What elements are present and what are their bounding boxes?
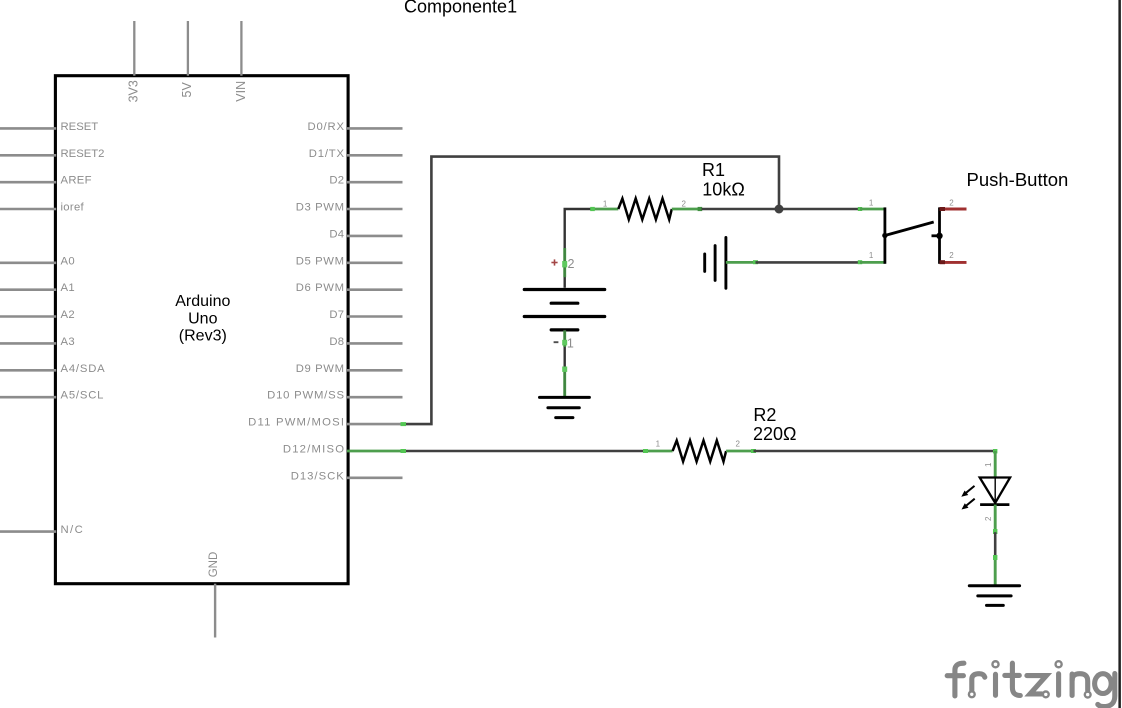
junction node dot xyxy=(775,205,784,214)
svg-text:1: 1 xyxy=(603,199,608,208)
svg-text:1: 1 xyxy=(656,439,661,448)
svg-text:R2: R2 xyxy=(753,405,776,425)
LED D1 light arrow 1 xyxy=(966,486,974,493)
svg-text:N/C: N/C xyxy=(61,524,85,536)
svg-text:A1: A1 xyxy=(61,282,75,294)
pin A5/SCL stub xyxy=(0,396,56,399)
left pin labels xyxy=(61,121,106,536)
push-button S1 contact tick right xyxy=(932,234,940,237)
canvas right edge line xyxy=(1118,0,1121,708)
pin 3V3 top stub xyxy=(133,21,135,76)
svg-text:2: 2 xyxy=(949,198,954,207)
ground GND2 pin lead xyxy=(726,261,756,264)
resistor R1 zigzag xyxy=(618,199,672,220)
push-button S1 contact dot right xyxy=(936,233,942,239)
pin D4 stub xyxy=(347,235,403,238)
svg-text:D13/SCK: D13/SCK xyxy=(291,470,345,482)
push-button S1 pin 2 bottom lead (unconnected, red) xyxy=(940,261,967,264)
svg-text:220Ω: 220Ω xyxy=(753,424,797,444)
svg-text:D0/RX: D0/RX xyxy=(308,121,345,133)
wire battery+ corner to R1 xyxy=(565,209,592,288)
push-button S1 left post xyxy=(884,207,887,263)
ground GND1 symbol xyxy=(540,396,590,399)
svg-text:D9 PWM: D9 PWM xyxy=(296,363,345,375)
battery pin 2 green overlay xyxy=(563,248,566,277)
LED D1 pin 2 lead (cathode) xyxy=(994,505,997,533)
LED D1 center line xyxy=(994,478,996,503)
pin D8 stub xyxy=(347,342,403,345)
svg-text:AREF: AREF xyxy=(61,175,92,187)
ground GND1 pin lead green overlay xyxy=(563,367,566,397)
resistor R2 lead 2 xyxy=(726,450,753,453)
pin D6 stub xyxy=(347,288,403,291)
svg-text:A4/SDA: A4/SDA xyxy=(61,363,106,375)
pin D5 stub xyxy=(347,261,403,264)
svg-text:D3 PWM: D3 PWM xyxy=(296,202,345,214)
resistor R1 lead 1 xyxy=(592,208,619,211)
pin A1 stub xyxy=(0,288,56,291)
pin D1/TX stub xyxy=(347,154,403,157)
pin A4/SDA stub xyxy=(0,369,56,372)
right pin labels xyxy=(248,121,345,482)
svg-text:2: 2 xyxy=(568,257,575,271)
svg-text:ioref: ioref xyxy=(61,202,85,214)
svg-text:2: 2 xyxy=(682,199,687,208)
pin D9 stub xyxy=(347,369,403,372)
wire nub at battery + xyxy=(562,261,567,267)
svg-text:D2: D2 xyxy=(329,175,344,187)
pin A3 stub xyxy=(0,342,56,345)
right pin stubs xyxy=(347,128,403,477)
LED D1 light arrow 2 xyxy=(966,499,974,506)
pin D13 stub xyxy=(347,476,403,479)
svg-text:3V3: 3V3 xyxy=(127,80,141,102)
svg-text:2: 2 xyxy=(736,439,741,448)
battery BAT1 pin 1 / wire to ground (dark) xyxy=(564,330,566,398)
svg-text:GND: GND xyxy=(208,552,220,578)
push-button S1 actuator diagonal xyxy=(885,222,934,236)
battery - sign xyxy=(554,341,559,343)
battery BAT1 plates xyxy=(524,288,604,291)
svg-text:(Rev3): (Rev3) xyxy=(179,328,227,345)
pin A2 stub xyxy=(0,315,56,318)
battery pin 1 green overlay xyxy=(563,331,566,348)
pin D2 stub xyxy=(347,181,403,184)
svg-text:D10 PWM/SS: D10 PWM/SS xyxy=(267,390,345,402)
push-button S1 pin 1 bottom lead xyxy=(860,261,885,264)
pin D7 stub xyxy=(347,315,403,318)
svg-text:1: 1 xyxy=(984,462,993,467)
svg-text:D7: D7 xyxy=(329,309,344,321)
svg-text:Componente1: Componente1 xyxy=(404,0,517,17)
push-button S1 right post xyxy=(938,207,941,263)
pin D3 stub xyxy=(347,208,403,211)
LED D1 pin 1 lead (anode, from corner down) xyxy=(994,451,997,478)
pin RESET2 stub xyxy=(0,154,56,157)
svg-text:D6 PWM: D6 PWM xyxy=(296,282,345,294)
svg-text:2: 2 xyxy=(949,251,954,260)
push-button S1 pin 2 top lead (unconnected, red) xyxy=(940,208,967,211)
pin D11 stub xyxy=(347,423,403,426)
LED D1 triangle xyxy=(980,478,1010,503)
svg-text:D11 PWM/MOSI: D11 PWM/MOSI xyxy=(248,417,345,429)
svg-text:D8: D8 xyxy=(329,336,344,348)
resistor R2 zigzag xyxy=(673,441,727,462)
IC U1 part label Arduino Uno (Rev3) xyxy=(175,293,230,344)
left pin stubs xyxy=(0,128,56,531)
svg-text:Arduino: Arduino xyxy=(175,293,230,310)
wire nub at D11 pin xyxy=(401,422,407,426)
ground GND3 symbol xyxy=(969,584,1019,587)
svg-text:1: 1 xyxy=(869,198,874,207)
push-button S1 contact dot left xyxy=(882,233,887,238)
pin D10 stub xyxy=(347,396,403,399)
svg-text:A5/SCL: A5/SCL xyxy=(61,390,105,402)
svg-text:A0: A0 xyxy=(61,255,75,267)
ground GND2 symbol (rotated, push-button branch) xyxy=(724,238,727,289)
wire junction to push-button pin 1 xyxy=(779,208,860,211)
pin A0 stub xyxy=(0,261,56,264)
push-button S1 pin 1 top lead xyxy=(860,208,885,211)
resistor R1 lead 2 xyxy=(672,208,702,211)
svg-text:10kΩ: 10kΩ xyxy=(702,179,744,199)
LED D1 cathode bar xyxy=(980,503,1009,506)
IC U1 Arduino Uno (Rev3) body outline xyxy=(55,76,348,584)
svg-text:Push-Button: Push-Button xyxy=(967,169,1069,190)
resistor R2 lead 1 xyxy=(644,450,672,453)
battery + sign xyxy=(551,262,557,264)
pin 5V top stub xyxy=(187,21,189,76)
svg-text:5V: 5V xyxy=(180,81,194,97)
wire R1 to junction xyxy=(702,208,780,211)
svg-text:VIN: VIN xyxy=(234,81,248,102)
wire LED to ground GND3 xyxy=(994,532,997,557)
svg-text:1: 1 xyxy=(567,337,574,351)
svg-text:2: 2 xyxy=(984,516,993,521)
svg-text:Uno: Uno xyxy=(188,310,217,327)
svg-text:RESET: RESET xyxy=(61,121,99,133)
svg-text:A3: A3 xyxy=(61,336,75,348)
svg-text:D4: D4 xyxy=(329,228,344,240)
pin RESET stub xyxy=(0,127,56,130)
wire D12 to R2 xyxy=(403,450,645,453)
svg-text:D5 PWM: D5 PWM xyxy=(296,255,345,267)
wire R2 to LED xyxy=(754,450,996,453)
svg-text:D1/TX: D1/TX xyxy=(309,148,345,160)
pin AREF stub xyxy=(0,181,56,184)
pin VIN top stub xyxy=(240,21,242,76)
svg-text:A2: A2 xyxy=(61,309,75,321)
pin GND bottom stub xyxy=(214,584,216,638)
svg-text:D12/MISO: D12/MISO xyxy=(283,444,345,456)
svg-text:1: 1 xyxy=(869,251,874,260)
svg-text:RESET2: RESET2 xyxy=(61,148,105,160)
pin D0/RX stub xyxy=(347,127,403,130)
pin D12 stub (connected, green) xyxy=(347,450,403,453)
wire D11 to net node (riser and top run to junction) xyxy=(403,157,780,425)
pin N/C stub xyxy=(0,530,56,533)
pin ioref stub xyxy=(0,208,56,211)
svg-text:R1: R1 xyxy=(702,160,725,180)
fritzing watermark logo xyxy=(947,661,1115,706)
wire ground GND2 to push-button pin 1 (bottom) xyxy=(756,261,861,264)
ground GND3 pin lead xyxy=(994,557,997,586)
